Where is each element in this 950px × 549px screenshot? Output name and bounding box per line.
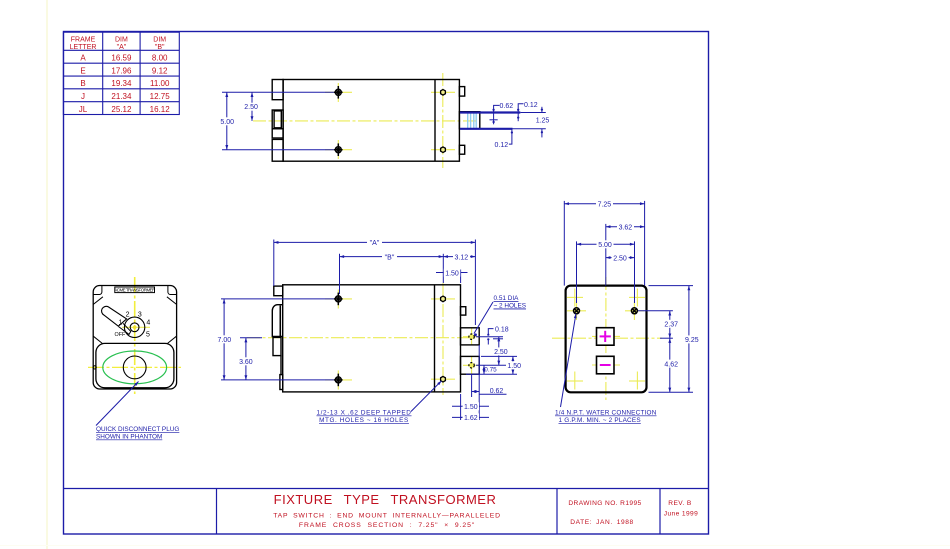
svg-text:~ 2 HOLES: ~ 2 HOLES (494, 303, 527, 310)
svg-text:DIM: DIM (153, 37, 166, 44)
extension line top (222, 91, 334, 93)
title block top line (64, 488, 709, 490)
dim 3.62 (606, 226, 645, 228)
svg-text:FIXTURE TYPE TRANSFORMER: FIXTURE TYPE TRANSFORMER (274, 492, 497, 507)
svg-text:E: E (80, 66, 85, 75)
terminal block (459, 112, 479, 129)
svg-text:4.62: 4.62 (664, 361, 678, 368)
end body (566, 286, 647, 393)
svg-text:3.62: 3.62 (619, 225, 633, 232)
svg-text:DATE: JAN. 1988: DATE: JAN. 1988 (570, 519, 634, 526)
svg-text:17.96: 17.96 (111, 66, 132, 75)
outer case (93, 286, 176, 390)
center line horizontal (247, 337, 469, 339)
terminal leads cyan (468, 112, 477, 129)
table row lines (63, 49, 179, 51)
left bracket mid with arc (272, 305, 282, 337)
svg-text:1.50: 1.50 (507, 363, 521, 370)
extension line bottom (222, 149, 334, 151)
svg-text:5.00: 5.00 (220, 119, 234, 126)
hole crosshairs (567, 310, 586, 312)
svg-text:1.50: 1.50 (464, 404, 478, 411)
svg-text:4: 4 (146, 320, 150, 327)
table outline (63, 32, 179, 114)
svg-text:"B": "B" (155, 44, 165, 51)
lower cover (96, 343, 174, 387)
svg-text:8.00: 8.00 (152, 54, 168, 63)
svg-text:16.12: 16.12 (150, 105, 171, 114)
dim B line (340, 256, 444, 258)
center line vertical (605, 277, 607, 400)
svg-text:June 1999: June 1999 (664, 511, 698, 518)
dim text 2.50 (243, 103, 259, 111)
dim 0.75 (483, 365, 485, 374)
dim 0.62 horizontal (471, 374, 473, 397)
svg-text:3.60: 3.60 (239, 359, 253, 366)
center line vertical (134, 277, 136, 394)
terminal lead line lower (460, 128, 513, 130)
leader quick disconnect (96, 382, 139, 426)
svg-text:QUICK DISCONNECT PLUG: QUICK DISCONNECT PLUG (96, 426, 179, 433)
center line vertical right (442, 283, 444, 395)
bolt bottom-left (334, 143, 343, 156)
faint plotter line left (46, 0, 48, 549)
dim 7.25 (564, 203, 644, 205)
bolt bottom-left (334, 374, 343, 387)
svg-text:TAP SWITCH : END MOUNT IN: TAP SWITCH : END MOUNT INTERNALLY—PARALL… (273, 513, 501, 520)
svg-text:"A": "A" (117, 44, 127, 51)
svg-text:DIM: DIM (115, 37, 128, 44)
svg-text:J: J (81, 92, 85, 101)
svg-text:"A": "A" (370, 240, 380, 247)
left bracket top tab (274, 286, 283, 296)
svg-text:3.12: 3.12 (454, 254, 468, 261)
note tapped holes (316, 410, 411, 425)
svg-text:1/2-13 X .62 DEEP TAPPED: 1/2-13 X .62 DEEP TAPPED (316, 410, 411, 417)
dim 2.50 line (251, 92, 253, 121)
dim 2.50 vertical (498, 337, 500, 366)
center line horizontal (552, 337, 662, 339)
title block divider 1 (216, 489, 218, 535)
bolt top-left (334, 293, 343, 306)
bolt bottom-right (441, 147, 446, 153)
svg-text:0.62: 0.62 (499, 103, 513, 110)
bolt right (631, 308, 637, 314)
dim text 5.00 (219, 102, 549, 149)
svg-text:LETTER: LETTER (70, 44, 97, 51)
svg-text:5: 5 (146, 332, 150, 339)
right small tabs (459, 87, 464, 97)
leader water connection (561, 314, 577, 408)
end view dimensions (561, 201, 694, 407)
dim 5.00 (577, 243, 635, 245)
center line vertical (442, 73, 444, 168)
dim 4.62 (669, 338, 671, 392)
svg-text:1 G.P.M. MIN. ~ 2 PLACES: 1 G.P.M. MIN. ~ 2 PLACES (559, 417, 641, 424)
corner center marks (567, 289, 645, 390)
terminal crosses (592, 335, 620, 337)
svg-text:3: 3 (138, 311, 142, 318)
plus terminal box (597, 328, 615, 346)
position labels (115, 311, 151, 338)
nameplate (115, 287, 155, 293)
end dim texts (596, 200, 701, 368)
svg-text:1: 1 (118, 320, 122, 327)
terminal hole lower (469, 363, 474, 368)
svg-text:21.34: 21.34 (111, 92, 132, 101)
svg-text:SHOWN IN PHANTOM: SHOWN IN PHANTOM (96, 434, 162, 441)
dim 0.12 top bracket (518, 104, 523, 113)
title block divider 3 (659, 489, 661, 535)
hole crosshairs left (325, 290, 480, 390)
leader 0.51 DIA (474, 302, 493, 334)
tap switch dial (124, 317, 144, 337)
svg-text:"B": "B" (385, 254, 395, 261)
svg-text:OFF: OFF (115, 332, 126, 338)
svg-text:7.00: 7.00 (217, 337, 231, 344)
top view dimensions (222, 92, 546, 149)
hole centerline bottom-left (325, 140, 352, 159)
svg-text:1.62: 1.62 (464, 415, 478, 422)
svg-text:FRAME CROSS SECTION : 7.25: FRAME CROSS SECTION : 7.25" × 9.25" (299, 522, 475, 529)
svg-text:0.51 DIA: 0.51 DIA (494, 295, 520, 302)
dim 1.62 bottom horizontal (452, 416, 489, 418)
svg-text:ACME TRANSFORMER: ACME TRANSFORMER (114, 288, 155, 293)
dim 9.25 (688, 286, 690, 393)
note water connection (555, 410, 657, 425)
plug circle (123, 356, 146, 379)
plug center line (88, 366, 181, 368)
svg-text:16.59: 16.59 (111, 54, 132, 63)
dim 0.12 bottom bracket (509, 129, 512, 144)
svg-text:A: A (80, 54, 86, 63)
svg-text:FRAME: FRAME (71, 37, 96, 44)
bolt bottom-right (441, 376, 446, 382)
body outline (272, 80, 480, 162)
faint plotter line bottom (0, 545, 950, 547)
terminal lead line upper (460, 111, 520, 113)
bolt top-left (334, 86, 343, 99)
svg-text:DRAWING NO. R1995: DRAWING NO. R1995 (568, 500, 641, 507)
table body text (79, 54, 170, 114)
dim 1.50 bottom horizontal (460, 394, 462, 420)
bolt top-right (441, 90, 446, 96)
minus terminal box (597, 356, 615, 374)
bolt left (574, 308, 580, 314)
tap switch lever (102, 306, 127, 326)
svg-text:25.12: 25.12 (111, 105, 132, 114)
dim 2.50 (606, 257, 635, 259)
svg-text:11.00: 11.00 (150, 79, 170, 88)
switch crosshair (122, 326, 150, 328)
note quick disconnect (96, 426, 179, 441)
svg-text:2.50: 2.50 (494, 349, 508, 356)
svg-text:12.75: 12.75 (150, 92, 171, 101)
minus symbol (600, 364, 611, 366)
corner details (93, 286, 176, 344)
svg-text:1.50: 1.50 (445, 270, 459, 277)
dim 2.37 (669, 311, 671, 338)
svg-text:B: B (80, 79, 85, 88)
svg-text:1.25: 1.25 (536, 118, 550, 125)
svg-text:0.12: 0.12 (524, 102, 538, 109)
svg-text:19.34: 19.34 (111, 79, 132, 88)
switch center dot (133, 326, 137, 330)
dim 1.25 marks (541, 107, 543, 113)
svg-text:1/4 N.P.T. WATER CONNECTION: 1/4 N.P.T. WATER CONNECTION (555, 410, 657, 417)
note 0.51 DIA (494, 295, 527, 310)
dim 1.50 vertical (512, 356, 514, 374)
svg-text:JL: JL (79, 105, 88, 114)
drawing frame border (64, 32, 709, 535)
dim 3.60 line (245, 338, 247, 380)
svg-text:0.12: 0.12 (494, 142, 508, 149)
svg-text:7.25: 7.25 (598, 202, 612, 209)
body outline (272, 285, 479, 392)
plus symbol (600, 331, 611, 342)
leader tapped holes (411, 381, 442, 412)
right terminal small tab (461, 307, 466, 315)
svg-text:0.18: 0.18 (495, 327, 509, 334)
table column lines (102, 32, 104, 114)
front dim texts (216, 239, 523, 423)
center line horizontal (253, 120, 477, 122)
svg-text:0.62: 0.62 (490, 388, 504, 395)
svg-text:REV. B: REV. B (668, 500, 692, 507)
front view dimensions (221, 240, 517, 421)
svg-text:2: 2 (126, 311, 130, 318)
left bracket lower (273, 337, 281, 355)
hole centerline right pair (431, 92, 455, 149)
svg-text:2.50: 2.50 (613, 255, 627, 262)
dim 5.00 line (226, 92, 228, 149)
svg-text:5.00: 5.00 (598, 242, 612, 249)
phantom plug ellipse (103, 351, 167, 384)
right terminal block upper (461, 328, 480, 345)
dim 7.00 line (223, 299, 225, 380)
small pin (93, 366, 96, 369)
dim 0.18 (488, 329, 493, 334)
dim 0.62 bracket (494, 105, 500, 112)
dim 3.12 line (443, 256, 475, 258)
right terminal block lower (461, 356, 480, 374)
table header text (70, 37, 167, 52)
svg-text:0.75: 0.75 (484, 366, 497, 373)
terminal hole upper (469, 334, 474, 339)
left bracket tabs (272, 80, 283, 100)
svg-text:2.50: 2.50 (244, 104, 258, 111)
dim 1.50 line top (436, 272, 468, 274)
svg-text:9.25: 9.25 (685, 337, 699, 344)
svg-text:2.37: 2.37 (664, 322, 678, 329)
svg-text:MTG. HOLES ~ 16 HOLES: MTG. HOLES ~ 16 HOLES (319, 417, 409, 424)
svg-text:9.12: 9.12 (152, 66, 168, 75)
title block divider 2 (556, 489, 558, 535)
bolt top-right (441, 296, 446, 302)
dim A line (274, 241, 476, 243)
hole centerline top-left (325, 83, 352, 102)
